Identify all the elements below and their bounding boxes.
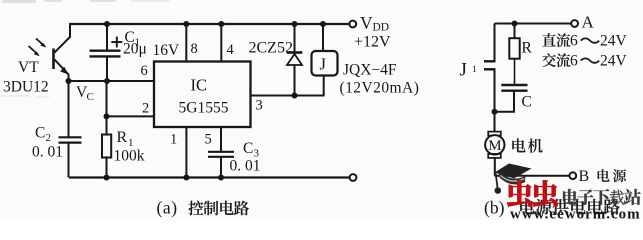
svg-text:24V: 24V bbox=[600, 53, 628, 70]
svg-text:6: 6 bbox=[570, 53, 578, 70]
label VDD bbox=[360, 13, 389, 34]
capacitor C2 bbox=[59, 81, 82, 178]
svg-text:C: C bbox=[35, 125, 45, 142]
svg-text:8: 8 bbox=[191, 41, 198, 57]
IC U1 5G1555 bbox=[154, 62, 251, 128]
watermark 虫虫 bbox=[507, 180, 558, 207]
wire pin 2 bbox=[107, 115, 155, 117]
label C1 bbox=[125, 29, 141, 49]
resistor R1 bbox=[102, 135, 111, 178]
svg-text:+12V: +12V bbox=[354, 34, 391, 51]
svg-text:2CZ52: 2CZ52 bbox=[249, 40, 293, 57]
svg-text:1: 1 bbox=[472, 65, 477, 75]
svg-text:(b): (b) bbox=[484, 198, 505, 218]
junction relay rail bbox=[320, 21, 326, 27]
junction pin8 rail bbox=[183, 21, 189, 27]
svg-text:J: J bbox=[320, 55, 327, 74]
svg-text:(a): (a) bbox=[157, 198, 178, 218]
capacitor C3 bbox=[208, 127, 234, 178]
svg-text:A: A bbox=[582, 13, 595, 32]
wire pin 3 bbox=[251, 95, 325, 97]
svg-text:6: 6 bbox=[141, 63, 148, 79]
label C3 bbox=[243, 140, 260, 160]
junction pin1 ground bbox=[183, 175, 189, 181]
resistor R bbox=[509, 24, 519, 86]
junction diode rail bbox=[292, 21, 298, 27]
junction C1 bottom bbox=[104, 78, 110, 84]
junction VC emitter bbox=[66, 78, 72, 84]
wire pin 8 bbox=[185, 24, 187, 62]
label J1 bbox=[460, 60, 478, 81]
caption text 控制电路 bbox=[188, 201, 249, 216]
svg-text:24V: 24V bbox=[600, 33, 628, 50]
wire pin 4 bbox=[220, 24, 222, 62]
junction pin2 node bbox=[104, 113, 110, 119]
svg-text:V: V bbox=[360, 13, 373, 33]
wire pin 1 bbox=[185, 127, 187, 178]
svg-text:0. 01: 0. 01 bbox=[230, 158, 261, 175]
svg-text:R: R bbox=[522, 40, 533, 57]
capacitor C bbox=[495, 85, 528, 112]
svg-text:(12V20mA): (12V20mA) bbox=[340, 80, 420, 97]
svg-text:2: 2 bbox=[142, 101, 149, 117]
relay coil J bbox=[312, 24, 338, 96]
caption text 电源供电电路 bbox=[520, 199, 620, 215]
svg-text:6: 6 bbox=[570, 33, 578, 50]
watermark 电子下载站 bbox=[563, 189, 641, 205]
junction pin4 rail bbox=[218, 21, 224, 27]
terminal bottom right bbox=[350, 174, 357, 181]
diode VD 2CZ52 bbox=[287, 24, 303, 96]
svg-text:5: 5 bbox=[205, 132, 212, 148]
label 电源 bbox=[598, 169, 626, 182]
junction R top bbox=[512, 21, 518, 27]
svg-text:3DU12: 3DU12 bbox=[3, 79, 49, 96]
terminal VDD bbox=[349, 21, 356, 28]
motor M bbox=[485, 132, 504, 176]
wire to terminal B bbox=[495, 175, 570, 177]
junction diode pin3 bbox=[292, 93, 298, 99]
label 电机 bbox=[512, 138, 542, 152]
svg-text:B: B bbox=[579, 168, 590, 185]
svg-text:IC: IC bbox=[191, 76, 208, 95]
svg-text:5G1555: 5G1555 bbox=[179, 100, 229, 117]
junction R1 ground bbox=[104, 175, 110, 181]
junction C bottom bbox=[492, 109, 498, 115]
svg-text:VT: VT bbox=[18, 59, 39, 76]
svg-text:M: M bbox=[488, 138, 501, 154]
svg-text:4: 4 bbox=[227, 42, 235, 58]
label R1 bbox=[117, 129, 134, 149]
svg-text:C: C bbox=[243, 140, 253, 157]
svg-text:100k: 100k bbox=[114, 148, 145, 165]
svg-text:C: C bbox=[522, 94, 532, 111]
svg-text:0. 01: 0. 01 bbox=[32, 144, 63, 161]
capacitor C1 bbox=[90, 24, 123, 81]
wire: VC node to pin 6 bbox=[69, 80, 155, 82]
svg-text:J: J bbox=[460, 60, 467, 81]
terminal A bbox=[571, 20, 578, 27]
label C2 bbox=[35, 125, 51, 145]
svg-text:R: R bbox=[117, 129, 128, 146]
svg-text:16V: 16V bbox=[153, 42, 181, 59]
label 直流6~24V bbox=[542, 33, 627, 50]
svg-text:3: 3 bbox=[256, 98, 263, 114]
contact J1 bbox=[484, 24, 496, 132]
svg-text:2: 2 bbox=[46, 132, 52, 144]
svg-text:C: C bbox=[87, 91, 94, 103]
phototransistor VT bbox=[29, 24, 71, 81]
wire C1/R1 vertical bbox=[106, 81, 108, 135]
junction C3 ground bbox=[218, 175, 224, 181]
terminal B bbox=[569, 172, 576, 179]
svg-text:1: 1 bbox=[170, 132, 177, 148]
svg-text:20μ: 20μ bbox=[123, 41, 147, 58]
label VC bbox=[76, 84, 94, 103]
svg-text:JQX−4F: JQX−4F bbox=[343, 62, 397, 79]
wire: top wire (b) bbox=[495, 23, 572, 25]
wire: +12V top rail bbox=[69, 23, 349, 25]
label 交流6~24V bbox=[542, 53, 627, 70]
junction C1 top bbox=[104, 21, 110, 27]
wire: ground bottom rail bbox=[69, 176, 349, 178]
watermark graduation cap bbox=[495, 164, 532, 194]
svg-text:DD: DD bbox=[373, 22, 390, 34]
